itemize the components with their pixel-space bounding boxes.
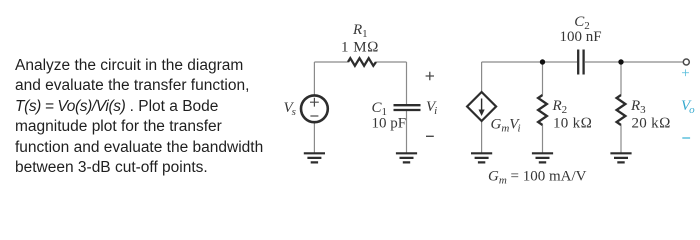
wire node to capacitor C1 <box>406 62 408 105</box>
svg-text:1 MΩ: 1 MΩ <box>341 40 379 56</box>
wire R3 to ground <box>620 125 622 153</box>
ground under C1 <box>396 153 417 162</box>
svg-text:R1: R1 <box>352 22 368 40</box>
wire dependent source to ground <box>481 122 483 154</box>
wire top-right horizontal segment <box>376 61 407 63</box>
svg-text:Vo: Vo <box>681 98 695 116</box>
wire top-left horizontal segment <box>314 61 348 63</box>
node Vi minus <box>426 135 434 137</box>
output minus <box>682 137 690 139</box>
svg-text:Vi: Vi <box>426 99 437 117</box>
dependent source arrow <box>481 99 483 112</box>
wire node to R2 <box>542 62 544 95</box>
ground under Vs <box>304 153 325 162</box>
wire node to R3 <box>620 62 622 95</box>
svg-text:R3: R3 <box>630 98 646 116</box>
resistor R1 <box>348 58 376 66</box>
wire left vertical to source <box>313 62 315 96</box>
node Vi plus <box>426 72 434 80</box>
svg-text:10 kΩ: 10 kΩ <box>553 116 592 132</box>
ground under dependent source <box>471 153 492 162</box>
svg-text:Vs: Vs <box>284 100 296 118</box>
wire source to ground <box>313 122 315 153</box>
capacitor C2 <box>578 50 583 75</box>
dependent current source GmVi <box>467 92 496 121</box>
capacitor C1 <box>394 105 421 110</box>
wire top horizontal right of C2 <box>585 61 683 63</box>
voltage source minus sign <box>310 115 318 117</box>
svg-text:+: + <box>681 66 689 82</box>
ground under R2 <box>532 153 553 162</box>
wire capacitor C1 to ground <box>406 111 408 154</box>
svg-text:100 nF: 100 nF <box>559 29 601 45</box>
wire down to dependent source <box>481 62 483 92</box>
ground under R3 <box>610 153 631 162</box>
voltage source Vs <box>301 95 328 122</box>
svg-text:GmVi: GmVi <box>491 117 521 135</box>
problem text <box>15 56 315 178</box>
svg-text:20 kΩ: 20 kΩ <box>632 116 671 132</box>
wire top horizontal left of C2 <box>482 61 577 63</box>
resistor R2 <box>538 95 547 125</box>
resistor R3 <box>617 95 626 125</box>
svg-text:10 pF: 10 pF <box>372 116 407 132</box>
junction node at R3 <box>618 59 623 64</box>
wire R2 to ground <box>542 125 544 153</box>
voltage source plus sign <box>310 98 319 107</box>
output terminal <box>683 59 689 65</box>
svg-text:Gm = 100 mA/V: Gm = 100 mA/V <box>488 169 587 187</box>
junction node at R2 <box>540 59 545 64</box>
svg-text:R2: R2 <box>552 98 568 116</box>
